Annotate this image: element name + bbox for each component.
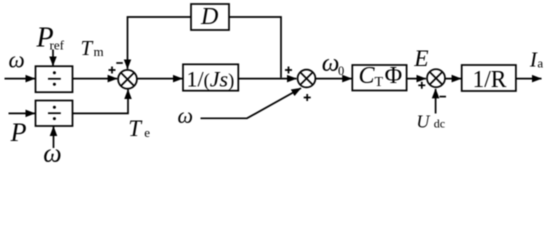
svg-text:m: m — [94, 44, 104, 59]
summing junction S2 — [298, 70, 316, 88]
svg-text:T: T — [128, 116, 143, 141]
svg-text:T: T — [81, 36, 94, 60]
plus sign at S1 left input — [109, 67, 116, 74]
wire: P input to divider block 2 — [9, 112, 36, 114]
wire: omega0 output from S2 to CT-Phi block — [315, 78, 351, 80]
minus sign at S3 bottom input — [440, 96, 447, 98]
divide symbol in DIV1 — [48, 71, 61, 85]
wire: D output right and down to main line — [229, 17, 281, 78]
X cross in S2 — [300, 72, 313, 85]
wire: Pref input arrow down into divider block 1 — [52, 50, 54, 66]
svg-text:P: P — [10, 118, 27, 147]
svg-text:1/R: 1/R — [473, 67, 507, 93]
block D — [191, 4, 229, 30]
wire: Te from DIV2 right then up into S1 bottom — [73, 90, 129, 114]
svg-text:ω: ω — [9, 48, 25, 73]
wire: omega input to divider block 1 — [5, 78, 36, 80]
block CT-Phi — [352, 65, 406, 91]
wire: S1 output to 1/(Js) block — [137, 78, 182, 80]
svg-text:dc: dc — [434, 117, 445, 131]
minus sign at S1 top input — [116, 62, 123, 64]
X cross in S3 — [430, 72, 443, 85]
plus sign at S3 left input — [418, 82, 425, 89]
divider block DIV1 — [36, 66, 73, 92]
svg-text:U: U — [416, 112, 430, 132]
wire: omega diagonal input into S2 — [201, 88, 302, 118]
wire: E from CT-Phi to summing junction S3 — [407, 78, 426, 80]
wire: Tm from DIV1 to summing junction S1 — [73, 78, 118, 80]
svg-text:ω: ω — [322, 50, 340, 77]
wire: Ia output from 1/R block — [516, 78, 542, 80]
wire: Udc input arrow up into S3 bottom — [435, 89, 437, 114]
wire: feedback from S1 top up and right to D block — [128, 17, 192, 69]
svg-text:e: e — [144, 125, 150, 140]
svg-text:E: E — [413, 46, 428, 72]
svg-text:ω: ω — [43, 138, 61, 164]
divider block DIV2 — [36, 101, 73, 127]
svg-text:ω: ω — [178, 103, 194, 128]
plus sign at S2 diagonal input — [304, 94, 311, 101]
svg-text:ref: ref — [50, 38, 65, 53]
summing junction S3 — [427, 69, 445, 87]
svg-text:0: 0 — [338, 64, 344, 78]
plus sign at S2 left input — [285, 67, 292, 74]
block 1/R — [462, 65, 516, 91]
wire: S3 output to 1/R block — [445, 78, 461, 80]
X cross in S1 — [121, 73, 134, 86]
summing junction S1 — [118, 70, 137, 89]
wire: omega input arrow up into divider block 2 — [53, 126, 55, 148]
block 1/(Js) — [183, 64, 238, 90]
divide symbol in DIV2 — [48, 106, 61, 120]
svg-text:1/(Js): 1/(Js) — [187, 67, 235, 92]
svg-text:a: a — [537, 56, 543, 71]
wire: 1/(Js) output into summing junction S2 — [238, 78, 296, 80]
svg-text:D: D — [200, 4, 218, 30]
